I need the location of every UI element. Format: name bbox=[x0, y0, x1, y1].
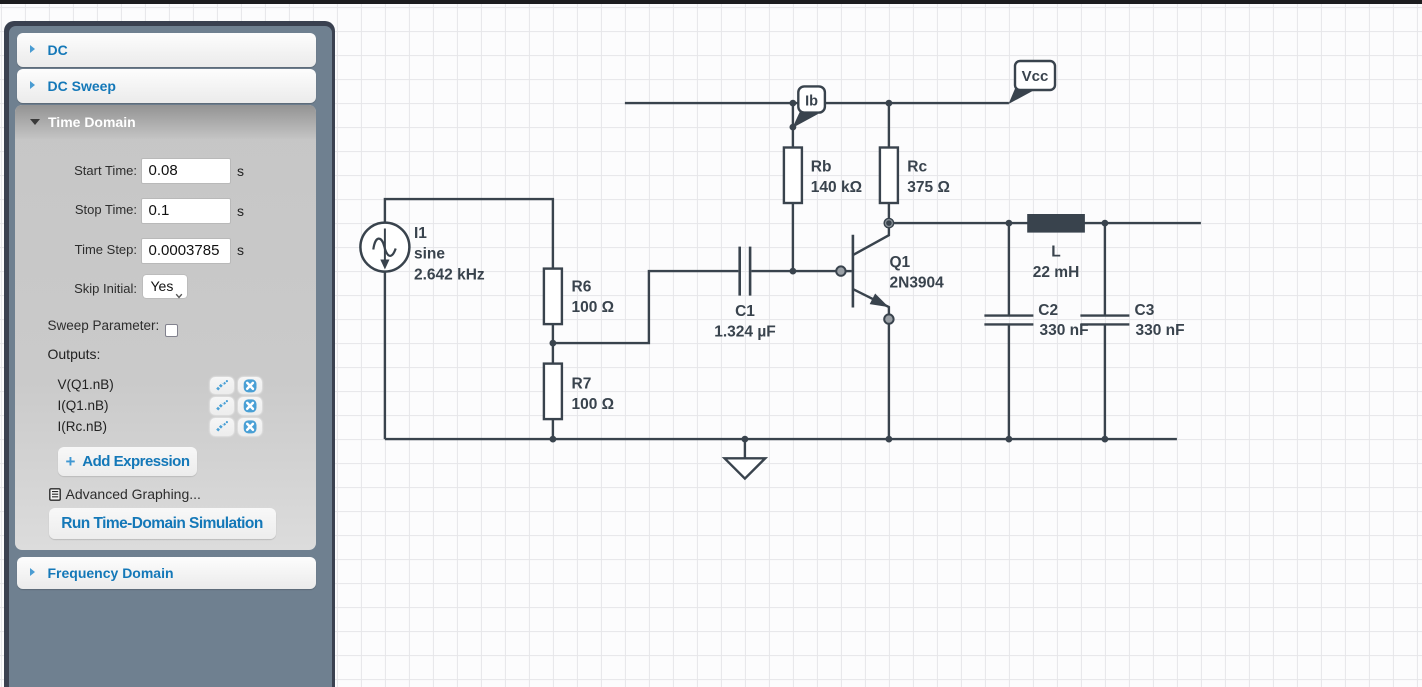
junction top rail at Rb bbox=[790, 100, 797, 107]
svg-text:C3: C3 bbox=[1135, 302, 1155, 319]
wire base terminal to Q1 bbox=[845, 270, 851, 272]
wire ground stub bbox=[744, 439, 746, 458]
label Rb value bbox=[811, 159, 862, 196]
junction bottom rail at emitter bbox=[886, 436, 893, 443]
DC Sweep header bbox=[17, 69, 316, 103]
resistor R6 bbox=[544, 269, 562, 325]
label I1 value bbox=[414, 225, 485, 283]
resistor Rc bbox=[880, 148, 898, 204]
sidebar panel bbox=[4, 21, 335, 687]
label C2 value bbox=[1038, 302, 1088, 339]
svg-text:330 nF: 330 nF bbox=[1136, 322, 1185, 339]
wire C2 bottom stub bbox=[1008, 325, 1010, 439]
wire C1 to base terminal bbox=[751, 270, 836, 272]
svg-text:I1: I1 bbox=[414, 225, 427, 242]
svg-text:L: L bbox=[1051, 244, 1060, 261]
transistor Q1 bbox=[853, 228, 889, 315]
wire R7 to bottom rail bbox=[552, 419, 554, 439]
svg-text:2N3904: 2N3904 bbox=[890, 274, 945, 291]
resistor Rb bbox=[784, 148, 802, 204]
svg-text:100 Ω: 100 Ω bbox=[572, 396, 615, 413]
svg-text:140 kΩ: 140 kΩ bbox=[811, 179, 862, 196]
svg-text:1.324 µF: 1.324 µF bbox=[714, 324, 776, 341]
label C3 value bbox=[1135, 302, 1185, 339]
top dark bar bbox=[0, 0, 1422, 4]
Time Domain section bbox=[15, 105, 316, 550]
wire top rail Vcc net bbox=[625, 102, 1009, 104]
resistor R7 bbox=[544, 364, 562, 420]
junction output rail at C2 bbox=[1006, 220, 1013, 227]
wire Rc top stub bbox=[888, 103, 890, 147]
wire junction to R7 bbox=[552, 343, 554, 364]
junction bottom rail at C2 bbox=[1006, 436, 1013, 443]
wire C3 bottom stub bbox=[1104, 325, 1106, 439]
svg-text:Q1: Q1 bbox=[890, 254, 911, 271]
wire R6 to junction bbox=[552, 324, 554, 343]
wire junction to C1 bbox=[553, 271, 739, 343]
svg-text:R7: R7 bbox=[572, 376, 592, 393]
label L value bbox=[1033, 244, 1080, 282]
node Ib flag bbox=[792, 86, 825, 128]
DC header bbox=[17, 33, 316, 67]
capacitor C1 bbox=[740, 247, 750, 296]
wire Rb bottom to base node bbox=[792, 203, 794, 271]
junction bottom rail at C3 bbox=[1102, 436, 1109, 443]
wire output rail right of L bbox=[1085, 222, 1201, 224]
label R6 value bbox=[572, 279, 615, 317]
node Q1 collector bbox=[884, 218, 895, 229]
label Rc value bbox=[907, 159, 950, 196]
junction base node bbox=[790, 268, 797, 275]
svg-text:Rc: Rc bbox=[907, 159, 927, 176]
wire C3 top stub bbox=[1104, 223, 1106, 315]
current source I1 bbox=[360, 223, 409, 272]
svg-text:375 Ω: 375 Ω bbox=[907, 179, 950, 196]
svg-text:R6: R6 bbox=[572, 279, 592, 296]
svg-text:C1: C1 bbox=[735, 303, 755, 320]
junction bottom rail at ground bbox=[742, 436, 749, 443]
ground bbox=[725, 458, 766, 478]
wire emitter to bottom rail bbox=[888, 324, 890, 439]
wire I1 bottom lead bbox=[384, 272, 386, 440]
label C1 value bbox=[714, 303, 776, 341]
svg-text:Vcc: Vcc bbox=[1022, 68, 1049, 85]
Frequency Domain header bbox=[17, 557, 317, 590]
junction Ib flag tap bbox=[790, 124, 797, 131]
wire Rb top stub bbox=[792, 103, 794, 147]
capacitor C2 bbox=[984, 316, 1033, 325]
wire Rc bottom to collector bbox=[888, 203, 890, 218]
svg-text:C2: C2 bbox=[1038, 302, 1058, 319]
svg-text:sine: sine bbox=[414, 246, 445, 263]
wire C2 top stub bbox=[1008, 223, 1010, 315]
inductor L bbox=[1027, 214, 1085, 233]
svg-text:22 mH: 22 mH bbox=[1033, 264, 1080, 281]
junction output rail at C3 bbox=[1102, 220, 1109, 227]
svg-text:Ib: Ib bbox=[805, 94, 818, 110]
wire output rail left of L bbox=[894, 222, 1028, 224]
svg-text:Rb: Rb bbox=[811, 159, 832, 176]
junction bottom rail at R7 bbox=[550, 436, 557, 443]
node Q1 emitter terminal bbox=[884, 314, 893, 323]
junction top rail at Rc bbox=[886, 100, 893, 107]
junction R6 R7 bbox=[550, 340, 557, 347]
label R7 value bbox=[572, 376, 615, 414]
svg-text:100 Ω: 100 Ω bbox=[572, 299, 615, 316]
node Vcc flag bbox=[1009, 61, 1056, 104]
capacitor C3 bbox=[1080, 316, 1129, 325]
svg-text:2.642 kHz: 2.642 kHz bbox=[414, 266, 485, 283]
wire bottom rail ground net bbox=[385, 438, 1177, 440]
wire I1 top lead bbox=[385, 199, 553, 269]
node Q1 base terminal bbox=[836, 266, 845, 275]
label Q1 value bbox=[890, 254, 945, 292]
